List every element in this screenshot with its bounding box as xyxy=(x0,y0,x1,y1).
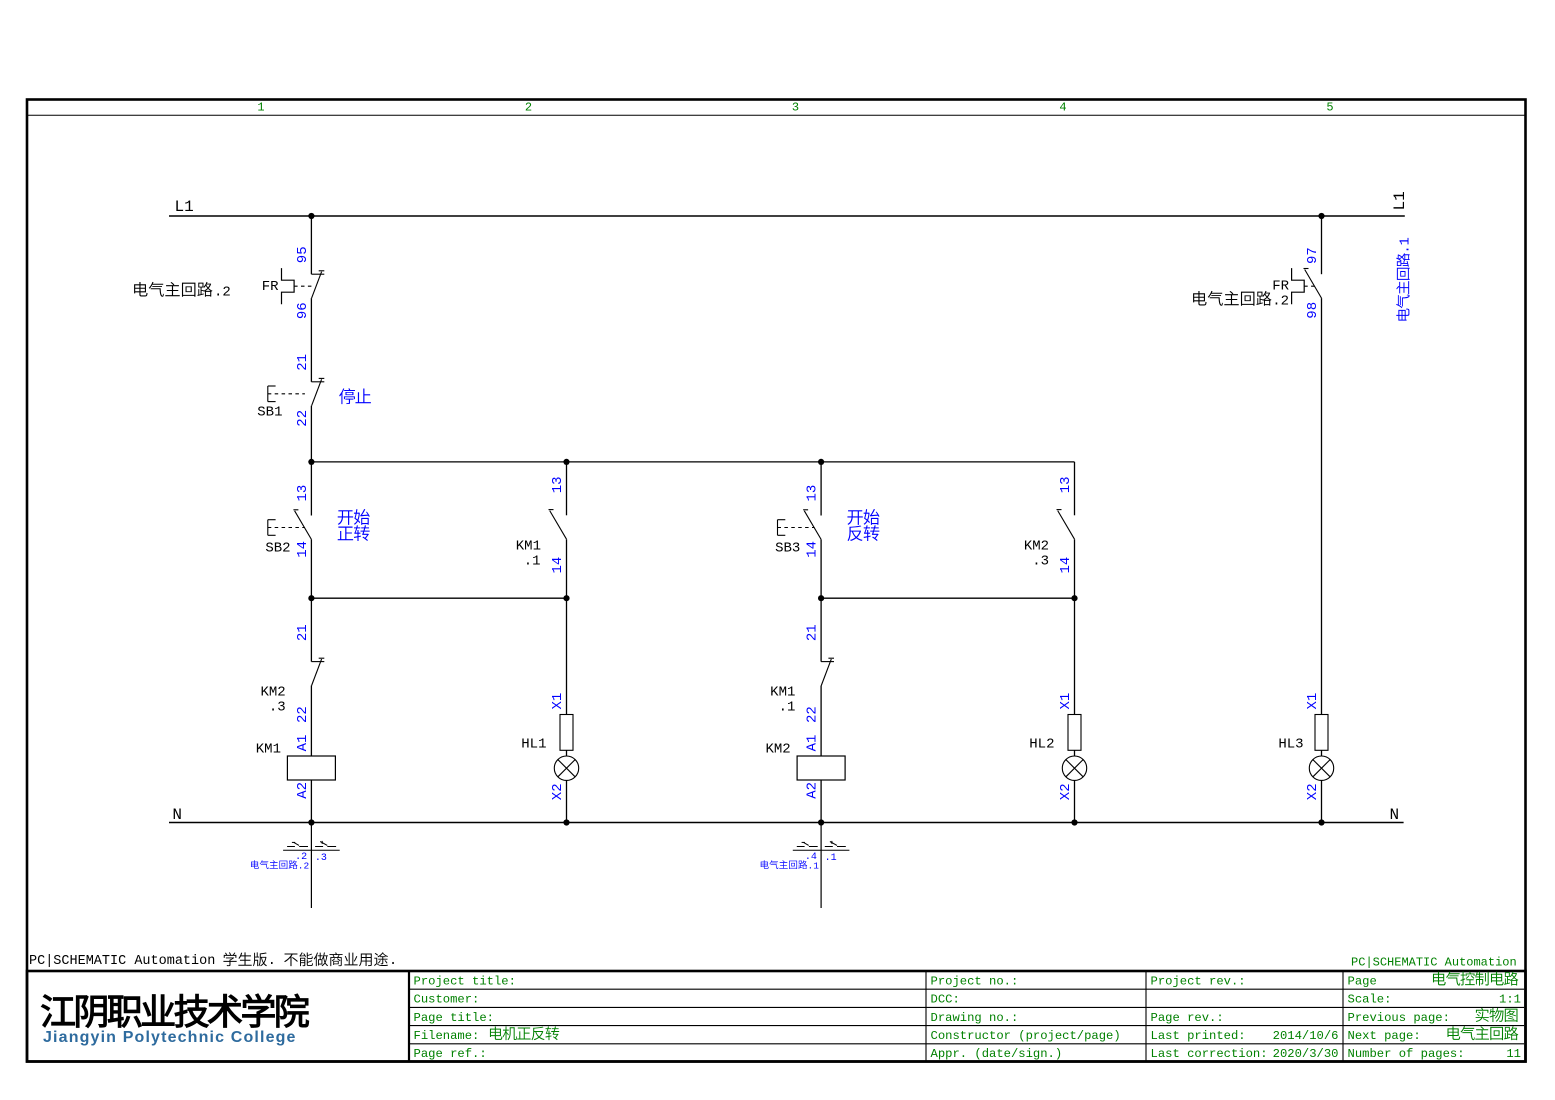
svg-text:21: 21 xyxy=(805,624,821,641)
svg-text:SB3: SB3 xyxy=(775,541,800,557)
pushbutton SB1 stop (NC) xyxy=(268,378,325,405)
contact mirror cross-reference KM1 xyxy=(251,823,340,909)
contactor NC interlock KM1.1 21-22 xyxy=(821,658,834,685)
svg-text:21: 21 xyxy=(295,354,311,371)
svg-text:PC|SCHEMATIC Automation: PC|SCHEMATIC Automation xyxy=(1351,955,1517,969)
wire rung2 right (SB3/KM2.3) xyxy=(821,597,1074,599)
svg-text:21: 21 xyxy=(295,624,311,641)
svg-text:Number of pages:: Number of pages: xyxy=(1348,1047,1465,1061)
svg-text:KM2: KM2 xyxy=(1024,538,1049,554)
wire rung2 left (SB2/KM1.1) xyxy=(311,597,566,599)
svg-text:Page rev.:: Page rev.: xyxy=(1151,1011,1224,1025)
lamp HL1 xyxy=(554,715,578,781)
svg-text:KM1: KM1 xyxy=(770,685,795,701)
svg-text:22: 22 xyxy=(295,706,311,723)
function text 开始正转 xyxy=(338,509,370,541)
svg-text:Jiangyin Polytechnic College: Jiangyin Polytechnic College xyxy=(43,1029,297,1046)
label SB1 xyxy=(257,405,282,421)
svg-text:Appr. (date/sign.): Appr. (date/sign.) xyxy=(931,1047,1063,1061)
svg-text:2: 2 xyxy=(525,101,532,115)
pin 95 xyxy=(295,246,311,263)
svg-text:Constructor (project/page): Constructor (project/page) xyxy=(931,1029,1121,1043)
svg-text:2020/3/30: 2020/3/30 xyxy=(1273,1047,1339,1061)
svg-text:SB2: SB2 xyxy=(265,541,290,557)
pin 22 (SB1) xyxy=(295,410,311,427)
pin X2 (HL1) xyxy=(550,783,566,800)
svg-text:Project no.:: Project no.: xyxy=(931,974,1019,988)
node L1 label right (rotated) xyxy=(1391,191,1409,210)
label FR xyxy=(262,279,279,295)
label SB2 xyxy=(265,541,290,557)
pin 21 (SB1) xyxy=(295,354,311,371)
thermal relay contact FR 95-96 (NC) xyxy=(282,268,325,304)
pin X1 (HL3) xyxy=(1305,693,1321,710)
svg-text:Next page:: Next page: xyxy=(1348,1029,1421,1043)
svg-text:98: 98 xyxy=(1305,302,1321,319)
pin 13 (SB2) xyxy=(295,485,311,502)
svg-text:13: 13 xyxy=(1058,476,1074,493)
svg-text:HL3: HL3 xyxy=(1278,737,1303,753)
svg-text:KM1: KM1 xyxy=(256,741,281,757)
pin X2 (HL2) xyxy=(1058,783,1074,800)
label SB3 xyxy=(775,541,800,557)
pin A2 (KM2) xyxy=(805,782,821,799)
svg-text:SB1: SB1 xyxy=(257,405,282,421)
svg-text:X2: X2 xyxy=(1305,783,1321,800)
svg-text:.: . xyxy=(389,954,397,969)
column index numbers xyxy=(257,101,1333,115)
svg-text:5: 5 xyxy=(1326,101,1333,115)
pushbutton SB2 start-forward (NO) xyxy=(268,510,312,540)
wire branch4 verticals xyxy=(1074,462,1076,823)
pin 14 (KM1.1) xyxy=(550,557,566,574)
svg-text:14: 14 xyxy=(550,557,566,574)
pin 98 xyxy=(1305,302,1321,319)
node L1 label left xyxy=(175,198,194,216)
svg-text:Page title:: Page title: xyxy=(414,1011,494,1025)
wire branch1 verticals xyxy=(310,216,312,823)
net name 电气主回路.1 vertical right xyxy=(1396,237,1413,320)
svg-text:.3: .3 xyxy=(315,853,327,864)
label HL2 xyxy=(1029,737,1054,753)
svg-text:11: 11 xyxy=(1506,1047,1521,1061)
svg-text:.3: .3 xyxy=(1032,553,1049,569)
svg-text:14: 14 xyxy=(295,541,311,558)
svg-text:.2: .2 xyxy=(214,285,231,301)
lamp HL2 xyxy=(1062,715,1086,781)
pin X1 (HL1) xyxy=(550,693,566,710)
watermark PC|SCHEMATIC student edition xyxy=(29,952,397,969)
text PC|SCHEMATIC Automation green xyxy=(1351,955,1517,969)
svg-text:1:1: 1:1 xyxy=(1499,993,1521,1007)
svg-text:Project title:: Project title: xyxy=(414,974,516,988)
svg-text:HL1: HL1 xyxy=(521,737,546,753)
svg-text:13: 13 xyxy=(295,485,311,502)
svg-text:Last correction:: Last correction: xyxy=(1151,1047,1268,1061)
path reference 电气主回路.2 (left) xyxy=(134,282,231,301)
path reference 电气主回路.2 (right) xyxy=(1193,291,1289,310)
title block grid xyxy=(27,971,1526,1062)
svg-text:PC|SCHEMATIC Automation: PC|SCHEMATIC Automation xyxy=(29,954,215,969)
svg-text:Project rev.:: Project rev.: xyxy=(1151,974,1246,988)
pin 13 (SB3) xyxy=(805,485,821,502)
label KM1 .1 xyxy=(516,538,541,569)
wire branch2 verticals xyxy=(566,462,568,823)
svg-text:14: 14 xyxy=(1058,557,1074,574)
svg-text:.2: .2 xyxy=(1272,294,1289,310)
svg-text:22: 22 xyxy=(295,410,311,427)
junction dots L1 rail xyxy=(308,213,1324,219)
title block field labels xyxy=(414,974,1465,1061)
svg-text:Previous page:: Previous page: xyxy=(1348,1011,1450,1025)
svg-text:3: 3 xyxy=(792,101,799,115)
label FR (right) xyxy=(1272,278,1289,294)
svg-text:Drawing no.:: Drawing no.: xyxy=(931,1011,1019,1025)
svg-text:X1: X1 xyxy=(550,693,566,710)
pin A1 (KM1) xyxy=(295,735,311,752)
svg-text:Customer:: Customer: xyxy=(414,993,480,1007)
pushbutton SB3 start-reverse (NO) xyxy=(778,510,822,540)
wire branch3 verticals xyxy=(820,462,822,823)
logo Jiangyin Polytechnic College xyxy=(43,1029,297,1046)
coil KM2 xyxy=(797,756,845,780)
svg-text:Scale:: Scale: xyxy=(1348,993,1392,1007)
svg-text:A2: A2 xyxy=(295,782,311,799)
junction dots rung2 xyxy=(308,595,1077,601)
svg-text:.2: .2 xyxy=(298,860,310,871)
label HL1 xyxy=(521,737,546,753)
pin 13 (KM2.3) xyxy=(1058,476,1074,493)
thermal relay contact FR 97-98 (NO) xyxy=(1292,268,1322,304)
wire control bus rung1 xyxy=(311,461,1074,463)
pin A2 (KM1) xyxy=(295,782,311,799)
svg-text:Filename:: Filename: xyxy=(414,1029,480,1043)
svg-text:.1: .1 xyxy=(808,860,820,871)
contact mirror cross-reference KM2 xyxy=(761,823,850,909)
svg-text:FR: FR xyxy=(1272,278,1289,294)
svg-text:4: 4 xyxy=(1059,101,1066,115)
pin 22 (KM2.3) xyxy=(295,706,311,723)
svg-text:N: N xyxy=(172,806,182,824)
svg-text:13: 13 xyxy=(805,485,821,502)
label KM2 .3 (NO) xyxy=(1024,538,1049,569)
label KM1 .1 (interlock) xyxy=(770,685,795,716)
contactor NC interlock KM2.3 21-22 xyxy=(311,658,324,685)
svg-text:L1: L1 xyxy=(1391,191,1409,210)
svg-text:95: 95 xyxy=(295,246,311,263)
pin 14 (SB3) xyxy=(805,541,821,558)
svg-text:X2: X2 xyxy=(550,783,566,800)
pin 96 xyxy=(295,302,311,319)
pin 13 (KM1.1) xyxy=(550,476,566,493)
svg-text:X1: X1 xyxy=(1058,693,1074,710)
node N label left xyxy=(172,806,182,824)
junction dots rung1 xyxy=(308,459,824,465)
pin 21 (KM1.1) xyxy=(805,624,821,641)
svg-text:KM2: KM2 xyxy=(260,685,285,701)
function text 开始反转 xyxy=(847,509,879,541)
logo 江阴职业技术学院 xyxy=(42,994,309,1028)
pin X1 (HL2) xyxy=(1058,693,1074,710)
svg-text:1: 1 xyxy=(257,101,264,115)
label KM2 .3 xyxy=(260,685,285,716)
svg-text:L1: L1 xyxy=(175,198,194,216)
label KM1 (coil) xyxy=(256,741,281,757)
pin A1 (KM2) xyxy=(805,735,821,752)
svg-text:.1: .1 xyxy=(524,553,541,569)
pin 21 (KM2.3) xyxy=(295,624,311,641)
function text 停止 xyxy=(339,388,371,404)
wire branch5 verticals xyxy=(1321,216,1323,823)
svg-text:X1: X1 xyxy=(1305,693,1321,710)
svg-text:13: 13 xyxy=(550,476,566,493)
svg-text:.1: .1 xyxy=(779,700,796,716)
svg-text:FR: FR xyxy=(262,279,279,295)
pin X2 (HL3) xyxy=(1305,783,1321,800)
contactor NO contact KM2.3 13-14 xyxy=(1057,510,1075,540)
wire N rail xyxy=(169,822,1404,824)
pin 14 (SB2) xyxy=(295,541,311,558)
svg-text:.: . xyxy=(268,954,276,969)
svg-text:DCC:: DCC: xyxy=(931,993,960,1007)
svg-text:14: 14 xyxy=(805,541,821,558)
svg-text:.1: .1 xyxy=(825,853,837,864)
svg-text:Page: Page xyxy=(1348,974,1377,988)
svg-text:2014/10/6: 2014/10/6 xyxy=(1273,1029,1339,1043)
svg-text:96: 96 xyxy=(295,302,311,319)
svg-text:X2: X2 xyxy=(1058,783,1074,800)
svg-text:A2: A2 xyxy=(805,782,821,799)
svg-text:.1: .1 xyxy=(1399,237,1414,253)
pin 97 xyxy=(1305,247,1321,264)
svg-text:KM2: KM2 xyxy=(765,741,790,757)
label HL3 xyxy=(1278,737,1303,753)
svg-text:N: N xyxy=(1390,806,1400,824)
pin 22 (KM1.1) xyxy=(805,706,821,723)
title block values xyxy=(490,972,1521,1062)
svg-text:Last printed:: Last printed: xyxy=(1151,1029,1246,1043)
lamp HL3 xyxy=(1309,715,1333,781)
pin 14 (KM2.3) xyxy=(1058,557,1074,574)
label KM2 (coil) xyxy=(765,741,790,757)
junction dots N rail xyxy=(308,819,1324,825)
svg-text:97: 97 xyxy=(1305,247,1321,264)
contactor NO contact KM1.1 13-14 xyxy=(549,510,567,540)
svg-text:22: 22 xyxy=(805,706,821,723)
node N label right xyxy=(1390,806,1400,824)
svg-text:A1: A1 xyxy=(295,735,311,752)
coil KM1 xyxy=(287,756,335,780)
wire L1 rail xyxy=(169,215,1405,217)
svg-text:Page ref.:: Page ref.: xyxy=(414,1047,487,1061)
svg-text:.3: .3 xyxy=(269,700,286,716)
svg-text:A1: A1 xyxy=(805,735,821,752)
svg-text:HL2: HL2 xyxy=(1029,737,1054,753)
svg-text:KM1: KM1 xyxy=(516,538,541,554)
